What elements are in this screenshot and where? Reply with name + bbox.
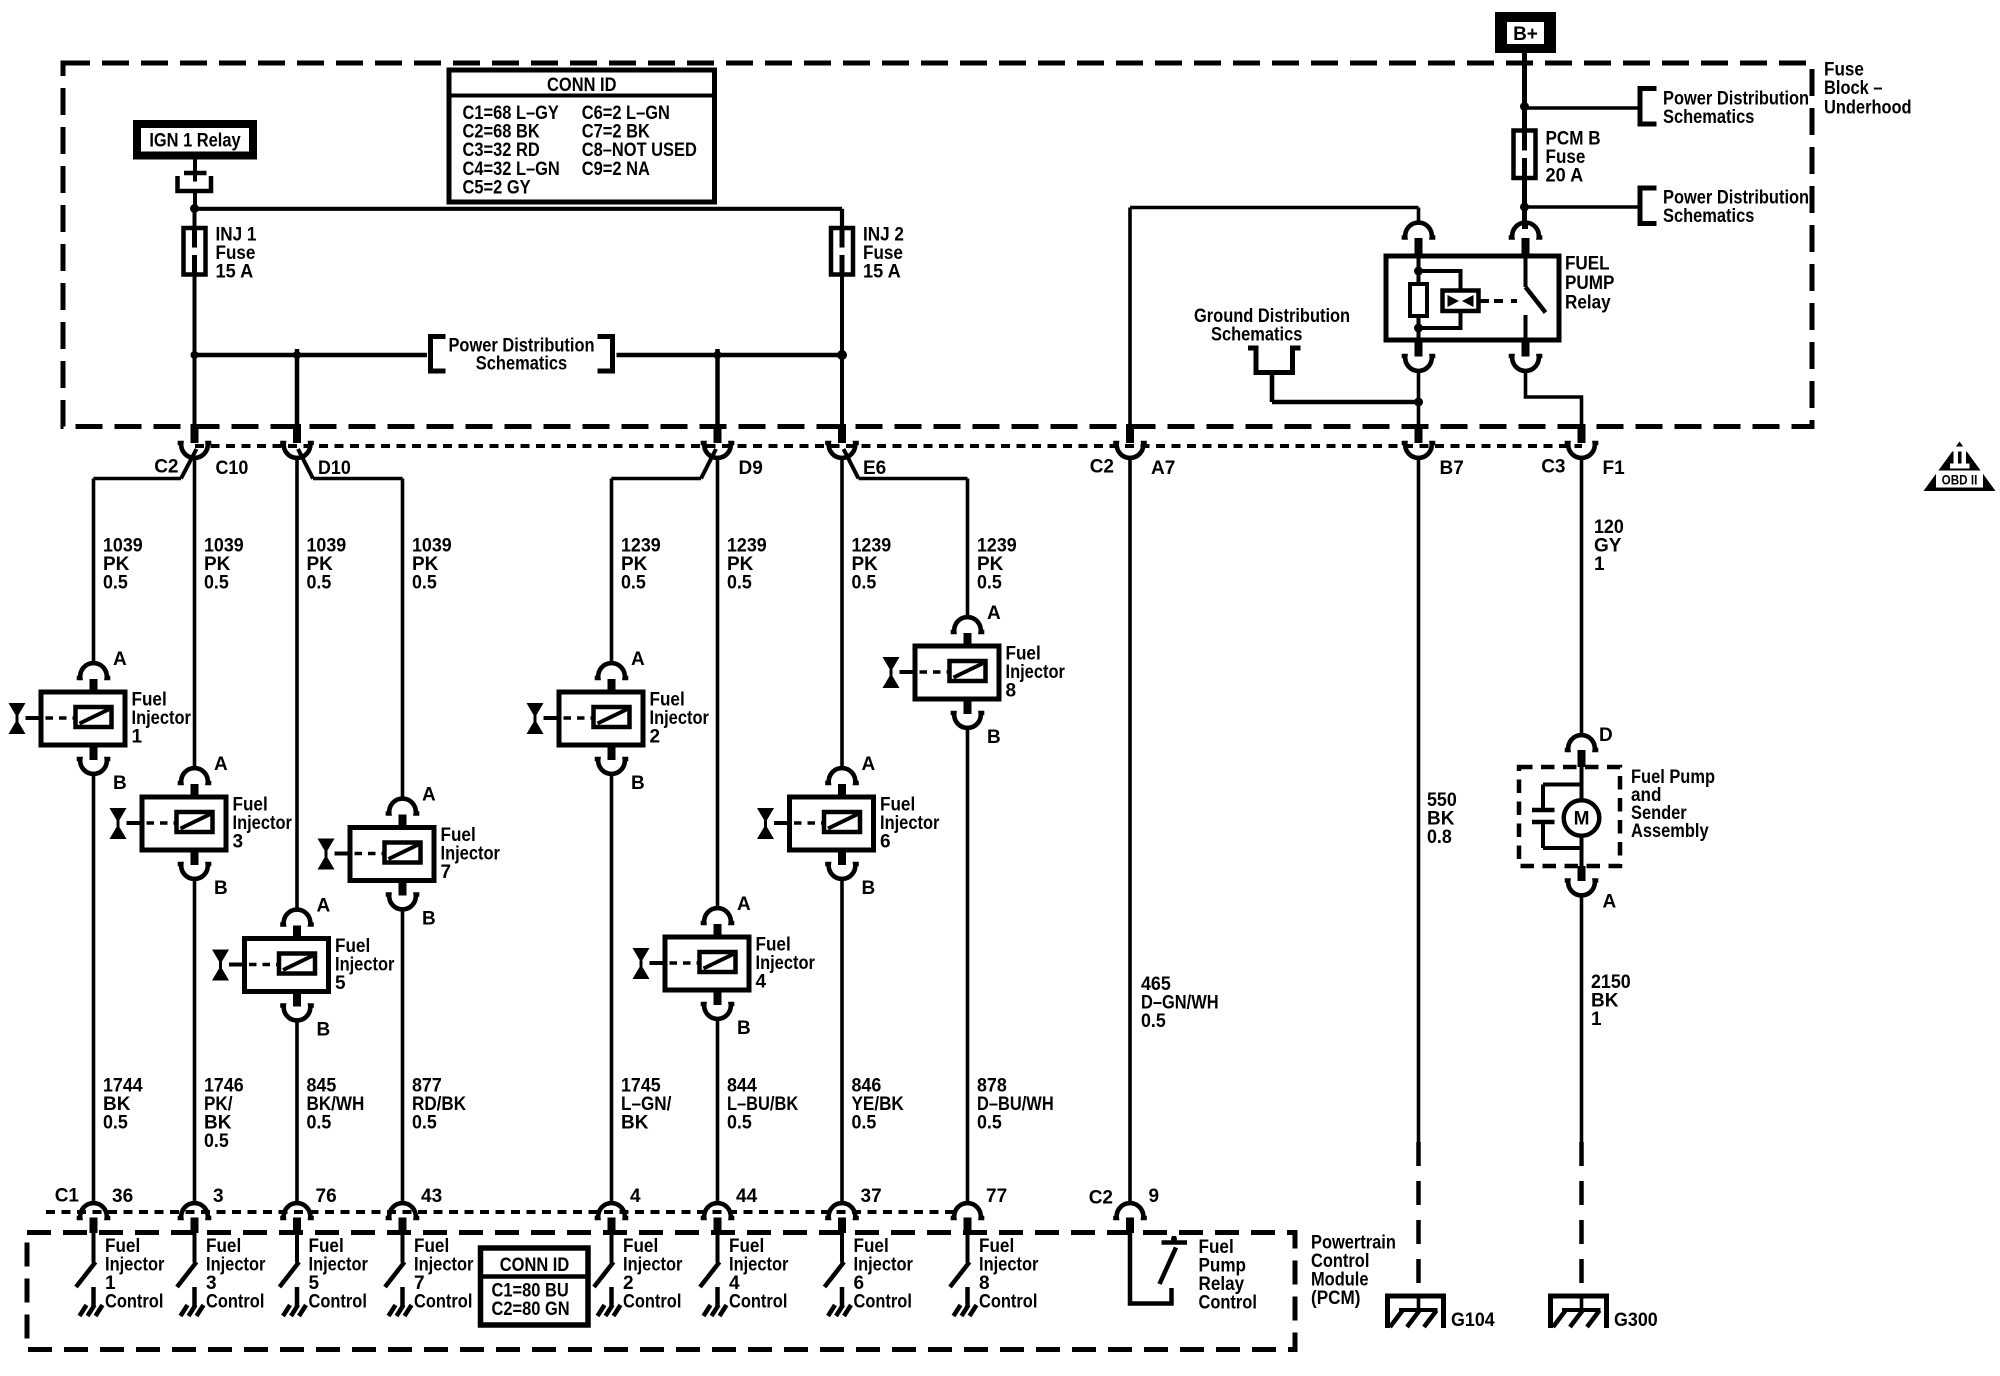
PCM driver: Fuel Injector 4 Control xyxy=(700,1232,789,1316)
table: CONN ID (PCM connectors) xyxy=(481,1248,589,1325)
wire: circuit 1039 PK to fuel injector 5 xyxy=(297,457,346,912)
PCM pin 43 connector xyxy=(386,1186,442,1233)
svg-text:C2: C2 xyxy=(1090,457,1114,478)
wire: circuit 2150 BK 1 (fuel pump to G300) xyxy=(1582,895,1631,1294)
wire: bus drop to connector D9 xyxy=(715,349,720,424)
svg-text:C1: C1 xyxy=(55,1186,80,1207)
svg-text:Schematics: Schematics xyxy=(1663,107,1754,128)
capacitor (noise suppressor) xyxy=(1532,785,1582,849)
svg-text:0.5: 0.5 xyxy=(307,573,332,594)
svg-text:D10: D10 xyxy=(318,458,351,479)
svg-text:B: B xyxy=(317,1020,331,1041)
svg-text:Schematics: Schematics xyxy=(476,354,567,375)
svg-text:43: 43 xyxy=(421,1186,442,1207)
fuel injector 7 xyxy=(318,785,501,930)
wire: D10 branch to injector 7 column xyxy=(298,449,403,479)
PCM pin 76 connector xyxy=(280,1186,336,1233)
svg-text:A7: A7 xyxy=(1151,458,1175,479)
PCM pin 3 connector xyxy=(178,1186,224,1233)
fuel injector 1 xyxy=(9,649,192,794)
connector line: fuse block pass-through (dotted) xyxy=(195,444,1582,448)
svg-text:D: D xyxy=(1599,725,1613,746)
junction: B+ tap to power distribution (upper) xyxy=(1520,102,1529,111)
module: Powertrain Control Module dashed boundary xyxy=(27,1233,1295,1350)
svg-text:0.5: 0.5 xyxy=(412,573,437,594)
junction: bus tap at D9 xyxy=(714,351,722,359)
wire: circuit 1746 (injector 3 to PCM) xyxy=(195,877,244,1205)
svg-text:B+: B+ xyxy=(1513,24,1538,45)
junction: bus at INJ1 column xyxy=(191,351,199,359)
svg-text:F1: F1 xyxy=(1603,458,1626,479)
label: Fuse Block - Underhood xyxy=(1824,60,1912,119)
svg-text:1: 1 xyxy=(132,727,143,748)
svg-text:Control: Control xyxy=(1199,1293,1257,1314)
PCM driver: Fuel Pump Relay Control xyxy=(1130,1232,1257,1314)
svg-text:Underhood: Underhood xyxy=(1824,98,1912,119)
svg-text:C3: C3 xyxy=(1541,457,1565,478)
junction: bus tap at D10 xyxy=(293,351,301,359)
svg-text:1: 1 xyxy=(1591,1009,1602,1030)
wire: C2 branch to injector 1 column xyxy=(94,449,197,479)
svg-text:37: 37 xyxy=(861,1186,882,1207)
wire: tap to power distribution bracket (lower) xyxy=(1525,205,1641,209)
off-page reference: Power Distribution Schematics (lower right) xyxy=(1640,188,1809,228)
svg-text:Control: Control xyxy=(414,1292,472,1313)
wire: IGN1 node down to INJ 1 fuse xyxy=(193,209,197,229)
svg-text:CONN ID: CONN ID xyxy=(547,75,616,96)
svg-text:4: 4 xyxy=(630,1186,641,1207)
fuse block underhood dashed boundary xyxy=(63,63,1812,427)
svg-text:Control: Control xyxy=(309,1292,367,1313)
junction: bus to INJ2 fuse column xyxy=(837,350,847,360)
wire: B+ down to PCM B fuse xyxy=(1522,53,1527,130)
ground G300 xyxy=(1548,1294,1658,1331)
svg-text:PUMP: PUMP xyxy=(1565,273,1615,294)
connector D9 at fuse block xyxy=(701,424,763,479)
svg-text:A: A xyxy=(1603,892,1617,913)
svg-text:0.5: 0.5 xyxy=(1141,1011,1166,1032)
svg-text:0.5: 0.5 xyxy=(204,573,229,594)
connector A7 at fuse block xyxy=(1090,424,1176,479)
wire: circuit 1039 PK to fuel injector 3 xyxy=(195,457,244,770)
svg-text:Control: Control xyxy=(105,1292,163,1313)
svg-text:C2: C2 xyxy=(154,457,178,478)
wire: circuit 1239 PK to fuel injector 6 xyxy=(842,457,891,770)
svg-text:0.5: 0.5 xyxy=(204,1131,229,1152)
wire: circuit 1239 PK to fuel injector 4 xyxy=(718,457,767,910)
wire: E6 branch to injector 8 column xyxy=(844,449,968,479)
wire: PCM B fuse to fuel pump relay switch xyxy=(1522,178,1527,229)
svg-text:M: M xyxy=(1574,809,1590,830)
svg-text:B7: B7 xyxy=(1440,458,1464,479)
svg-text:B: B xyxy=(631,773,645,794)
svg-text:B: B xyxy=(214,878,228,899)
svg-text:5: 5 xyxy=(335,973,346,994)
svg-text:1: 1 xyxy=(1594,554,1605,575)
svg-text:Control: Control xyxy=(729,1292,787,1313)
svg-text:B: B xyxy=(113,773,127,794)
svg-text:OBD II: OBD II xyxy=(1942,473,1978,488)
svg-text:0.5: 0.5 xyxy=(621,573,646,594)
motor M xyxy=(1564,800,1600,836)
connector C10 at fuse block xyxy=(154,424,248,479)
svg-text:76: 76 xyxy=(316,1186,337,1207)
PCM driver: Fuel Injector 1 Control xyxy=(76,1232,165,1316)
svg-text:A: A xyxy=(214,754,228,775)
svg-text:0.5: 0.5 xyxy=(727,1113,752,1134)
svg-text:Control: Control xyxy=(623,1292,681,1313)
svg-text:7: 7 xyxy=(441,862,452,883)
svg-text:A: A xyxy=(862,754,876,775)
svg-text:A: A xyxy=(317,896,331,917)
wire: circuit 846 (injector 6 to PCM) xyxy=(842,877,904,1205)
fuse: INJ 1 Fuse 15 A xyxy=(184,225,257,283)
svg-text:0.5: 0.5 xyxy=(852,573,877,594)
PCM driver: Fuel Injector 8 Control xyxy=(950,1232,1039,1316)
svg-text:Schematics: Schematics xyxy=(1211,325,1302,346)
wire: circuit 550 BK 0.8 (B7 to G104) xyxy=(1419,458,1457,1295)
off-page reference: Power Distribution Schematics (left bus) xyxy=(431,336,613,375)
svg-text:A: A xyxy=(987,603,1001,624)
connector F1 at fuse block xyxy=(1541,424,1625,479)
svg-text:BK: BK xyxy=(621,1113,649,1134)
wire: injector feed bus (left segment) xyxy=(195,353,428,358)
svg-text:A: A xyxy=(113,649,127,670)
svg-text:Relay: Relay xyxy=(1565,293,1611,314)
svg-text:4: 4 xyxy=(756,972,767,993)
junction: ground distribution tie-in xyxy=(1414,398,1423,407)
PCM driver: Fuel Injector 5 Control xyxy=(280,1232,369,1316)
PCM driver: Fuel Injector 7 Control xyxy=(385,1232,474,1316)
svg-text:B: B xyxy=(862,878,876,899)
fuel injector 5 xyxy=(212,896,395,1041)
wire: injector feed bus (right segment) xyxy=(617,353,843,358)
PCM pin 36 connector xyxy=(77,1186,133,1233)
wire: circuit 1239 PK to fuel injector 2 xyxy=(612,479,661,666)
svg-text:C5=2 GY: C5=2 GY xyxy=(463,177,531,198)
PCM pin 44 connector xyxy=(701,1186,758,1233)
relay: IGN 1 Relay box label xyxy=(133,120,257,160)
connector B7 at fuse block xyxy=(1402,424,1464,479)
wire: relay coil feed (A7 column to relay pin) xyxy=(1130,206,1419,210)
fuel injector 4 xyxy=(633,894,816,1039)
svg-text:0.8: 0.8 xyxy=(1427,827,1452,848)
svg-text:G104: G104 xyxy=(1451,1310,1495,1331)
svg-text:36: 36 xyxy=(112,1186,133,1207)
fuel injector 3 xyxy=(110,754,293,899)
connector line: PCM connector (dotted) xyxy=(46,1210,955,1214)
PCM pin 9 connector xyxy=(1113,1186,1159,1233)
wire: circuit 465 D-GN/WH (A7 to PCM pin 9) xyxy=(1130,457,1219,1205)
svg-text:15 A: 15 A xyxy=(216,262,254,283)
junction: fuse output tap to power distribution (lower) xyxy=(1520,203,1529,212)
wire: circuit 1744 (injector 1 to PCM) xyxy=(94,772,144,1205)
svg-text:Control: Control xyxy=(854,1292,912,1313)
svg-text:0.5: 0.5 xyxy=(727,573,752,594)
svg-text:0.5: 0.5 xyxy=(307,1113,332,1134)
svg-text:0.5: 0.5 xyxy=(977,1113,1002,1134)
svg-text:6: 6 xyxy=(880,832,891,853)
wire: circuit 845 (injector 5 to PCM) xyxy=(297,1019,364,1205)
symbol: OBD II marker xyxy=(1924,442,1996,492)
svg-text:B: B xyxy=(422,909,436,930)
connector D10 at fuse block xyxy=(280,424,351,479)
svg-text:Assembly: Assembly xyxy=(1631,821,1709,842)
svg-text:E6: E6 xyxy=(863,458,886,479)
svg-text:20 A: 20 A xyxy=(1546,166,1584,187)
svg-text:FUEL: FUEL xyxy=(1565,254,1610,275)
ground G104 xyxy=(1385,1294,1495,1331)
wire: IGN 1 feed bus (top, to INJ 2 fuse) xyxy=(195,207,843,211)
svg-text:2: 2 xyxy=(650,727,661,748)
wire: circuit 1039 PK to fuel injector 7 xyxy=(403,479,452,801)
PCM driver: Fuel Injector 6 Control xyxy=(825,1232,914,1316)
svg-text:B: B xyxy=(737,1018,751,1039)
svg-text:0.5: 0.5 xyxy=(103,1113,128,1134)
fuse: PCM B Fuse 20 A xyxy=(1514,129,1601,187)
svg-text:C10: C10 xyxy=(216,458,249,479)
svg-text:Control: Control xyxy=(206,1292,264,1313)
PCM pin 37 connector xyxy=(825,1186,881,1233)
wire: circuit 1039 PK to fuel injector 1 xyxy=(94,479,143,666)
svg-text:Block –: Block – xyxy=(1824,78,1883,99)
svg-text:77: 77 xyxy=(986,1186,1007,1207)
wire: circuit 877 (injector 7 to PCM) xyxy=(403,908,467,1205)
svg-text:0.5: 0.5 xyxy=(412,1113,437,1134)
wire: bus drop to connector C2/C10 xyxy=(193,355,197,424)
PCM pin 77 connector xyxy=(951,1186,1007,1233)
wire: circuit 1745 (injector 2 to PCM) xyxy=(612,772,673,1205)
svg-text:Control: Control xyxy=(979,1292,1037,1313)
svg-text:IGN 1 Relay: IGN 1 Relay xyxy=(149,131,241,152)
svg-text:3: 3 xyxy=(213,1186,224,1207)
svg-text:C2: C2 xyxy=(1089,1188,1113,1209)
table: CONN ID (fuse block connectors) xyxy=(449,70,715,202)
B+ battery feed symbol xyxy=(1495,12,1556,53)
svg-text:Schematics: Schematics xyxy=(1663,206,1754,227)
svg-text:44: 44 xyxy=(736,1186,758,1207)
svg-text:15 A: 15 A xyxy=(863,262,901,283)
svg-text:3: 3 xyxy=(233,832,244,853)
svg-text:CONN ID: CONN ID xyxy=(500,1255,569,1276)
svg-text:C9=2 NA: C9=2 NA xyxy=(582,159,650,180)
svg-text:A: A xyxy=(631,649,645,670)
svg-text:C2=80 GN: C2=80 GN xyxy=(492,1299,570,1320)
wire: bus drop to connector D10 xyxy=(295,349,300,424)
wire: circuit 844 (injector 4 to PCM) xyxy=(718,1017,799,1205)
wire: INJ2 fuse output down to E6 xyxy=(840,275,844,425)
svg-text:D9: D9 xyxy=(739,458,763,479)
PCM driver: Fuel Injector 2 Control xyxy=(594,1232,683,1316)
wire: relay switch output to F1 column xyxy=(1526,371,1582,425)
svg-text:8: 8 xyxy=(1006,681,1017,702)
connector A at fuel pump xyxy=(1565,866,1617,913)
svg-text:G300: G300 xyxy=(1614,1310,1658,1331)
connector E6 at fuse block xyxy=(825,424,886,479)
relay: IGN 1 relay output contact symbol xyxy=(178,160,212,209)
off-page reference: Ground Distribution Schematics xyxy=(1194,306,1419,402)
svg-text:0.5: 0.5 xyxy=(852,1113,877,1134)
connector D at fuel pump xyxy=(1565,725,1613,767)
PCM driver: Fuel Injector 3 Control xyxy=(177,1232,266,1316)
fuel pump and sender assembly xyxy=(1519,767,1715,866)
svg-text:(PCM): (PCM) xyxy=(1311,1288,1360,1309)
svg-text:A: A xyxy=(422,785,436,806)
off-page reference: Power Distribution Schematics (upper right) xyxy=(1640,89,1809,129)
fuel injector 2 xyxy=(527,649,710,794)
wire: tap to power distribution bracket (upper) xyxy=(1525,106,1641,110)
relay: FUEL PUMP Relay xyxy=(1386,223,1615,371)
wire: relay coil low side down to B7 xyxy=(1417,371,1421,425)
wire: INJ 1 fuse output down to bus xyxy=(193,275,197,356)
svg-text:0.5: 0.5 xyxy=(103,573,128,594)
svg-text:0.5: 0.5 xyxy=(977,573,1002,594)
fuel injector 6 xyxy=(757,754,940,899)
svg-text:9: 9 xyxy=(1149,1186,1160,1207)
svg-text:B: B xyxy=(987,727,1001,748)
fuse: INJ 2 Fuse 15 A xyxy=(831,225,904,283)
wire: circuit 1239 PK to fuel injector 8 xyxy=(968,479,1017,620)
junction: IGN1 relay output node xyxy=(190,204,199,213)
PCM pin 4 connector xyxy=(595,1186,641,1233)
wire: circuit 120 GY 1 (F1 to fuel pump) xyxy=(1582,458,1624,736)
wire: D9 branch to injector 2 column xyxy=(612,449,717,479)
svg-text:A: A xyxy=(737,894,751,915)
fuel injector 8 xyxy=(883,603,1066,748)
wire: circuit 878 (injector 8 to PCM) xyxy=(968,726,1054,1205)
label: Powertrain Control Module (PCM) xyxy=(1311,1233,1396,1310)
